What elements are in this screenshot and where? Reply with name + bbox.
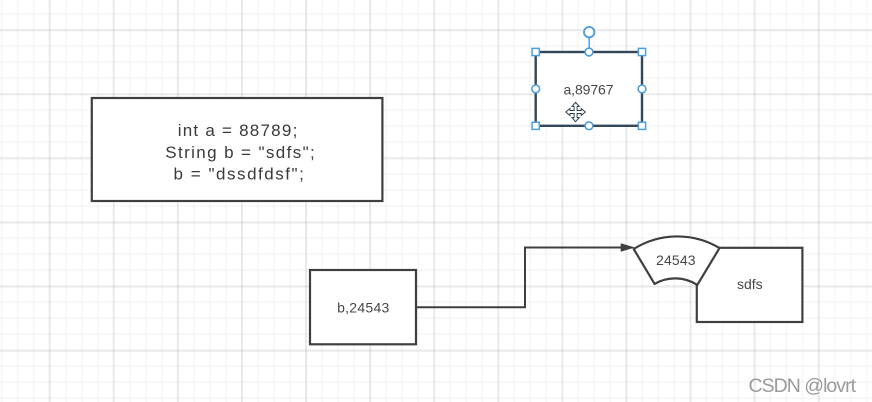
- tape shape: 24543: [634, 236, 720, 284]
- svg-text:a,89767: a,89767: [564, 82, 614, 98]
- svg-text:b,24543: b,24543: [337, 300, 389, 316]
- selection handle: bottom-mid circle: [585, 122, 593, 130]
- rectangle: code block: [92, 98, 383, 201]
- selection handle: top-right square: [638, 48, 645, 55]
- selection handle: bottom-right square: [638, 122, 645, 129]
- selection handle: top-left square: [532, 48, 539, 55]
- selection handle: left-mid circle: [532, 85, 540, 93]
- svg-text:24543: 24543: [656, 252, 696, 268]
- selected rectangle: a,89767: [536, 52, 642, 126]
- rotation handle: [584, 27, 594, 50]
- selection handle: right-mid circle: [638, 85, 646, 93]
- selection handle: top-mid circle: [585, 48, 593, 56]
- svg-text:int a = 88789;: int a = 88789;: [178, 121, 298, 140]
- selection handle: bottom-left square: [532, 122, 539, 129]
- rectangle: b,24543: [310, 270, 416, 344]
- svg-text:sdfs: sdfs: [737, 276, 763, 292]
- rectangle: sdfs: [697, 248, 803, 322]
- svg-text:CSDN @lovrt: CSDN @lovrt: [749, 375, 857, 397]
- wire: arrow from b,24543 to tape: [416, 244, 633, 307]
- move cursor icon: [566, 102, 585, 121]
